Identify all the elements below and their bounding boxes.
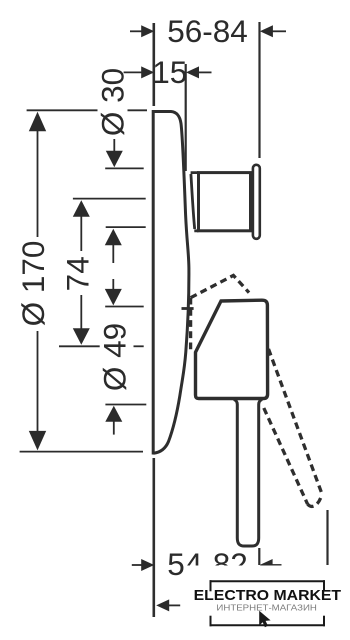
tick 74 lower — [59, 345, 100, 347]
dashed rod right edge — [269, 349, 323, 494]
svg-text:ИНТЕРНЕТ-МАГАЗИН: ИНТЕРНЕТ-МАГАЗИН — [216, 603, 317, 612]
svg-text:Ø 170: Ø 170 — [15, 241, 51, 327]
svg-text:15: 15 — [152, 54, 187, 90]
wall surface line (top segment) — [153, 23, 156, 106]
dimension 15 arrows — [124, 71, 142, 73]
dashed rod end cap — [308, 494, 323, 506]
mouse cursor — [259, 611, 270, 627]
watermark white backing — [185, 566, 350, 634]
dimension 74 line + arrows — [80, 214, 82, 251]
extension line 54-82 right (rod edge) — [258, 548, 260, 565]
dimension arrow to wall (lower, points left) — [168, 604, 180, 606]
lever handle body — [196, 300, 268, 398]
tick Ø170 lower — [20, 451, 143, 453]
escutcheon plate left edge — [152, 110, 155, 455]
svg-text:Ø 49: Ø 49 — [96, 323, 132, 391]
dashed handle body left edge — [189, 298, 192, 353]
svg-text:74: 74 — [60, 256, 96, 291]
dashed handle body (alternate position, top edges) — [191, 275, 249, 297]
valve sleeve (cone between plate and stem) — [191, 173, 199, 231]
escutcheon plate profile — [154, 112, 189, 454]
tick Ø30 lower — [105, 167, 144, 169]
watermark frame bottom — [210, 624, 326, 626]
watermark frame right stubs — [323, 580, 325, 591]
svg-text:ELECTRO MARKET: ELECTRO MARKET — [194, 587, 342, 604]
tick Ø49 upper — [106, 226, 146, 228]
watermark frame top — [210, 580, 326, 582]
dimension Ø170 line — [37, 130, 39, 237]
hidden edge stub at plate (solid, y=308.5) — [182, 307, 194, 310]
cartridge stem body — [199, 173, 251, 231]
stem end cap flange — [253, 165, 260, 239]
tick plate top (Ø170 / Ø30 upper) — [27, 109, 98, 111]
watermark frame left stubs — [210, 580, 212, 591]
wall surface line (bottom segment) — [153, 458, 156, 617]
dimension 56-84 arrows — [130, 30, 143, 32]
arrow pointing up at 404.5 tick — [105, 406, 122, 422]
extension line 15 right — [185, 64, 187, 171]
svg-text:56-84: 56-84 — [167, 13, 248, 49]
tick 74 upper — [73, 198, 146, 200]
sleeve/stem junction line — [197, 173, 200, 231]
tick Ø49 lower extension (y=404.5) — [105, 404, 146, 406]
dashed rod left edge — [264, 408, 308, 504]
dimension 54-82 arrows — [132, 564, 143, 566]
dimension Ø30 line + arrow — [113, 139, 115, 154]
extension line dashed-rod tip — [326, 510, 328, 565]
dimension Ø49 line + arrows — [112, 245, 114, 263]
svg-text:Ø 30: Ø 30 — [95, 68, 131, 136]
extension line 56-84 right — [258, 22, 260, 158]
lever handle rod — [234, 400, 262, 547]
tick Ø49 lower — [105, 306, 144, 308]
